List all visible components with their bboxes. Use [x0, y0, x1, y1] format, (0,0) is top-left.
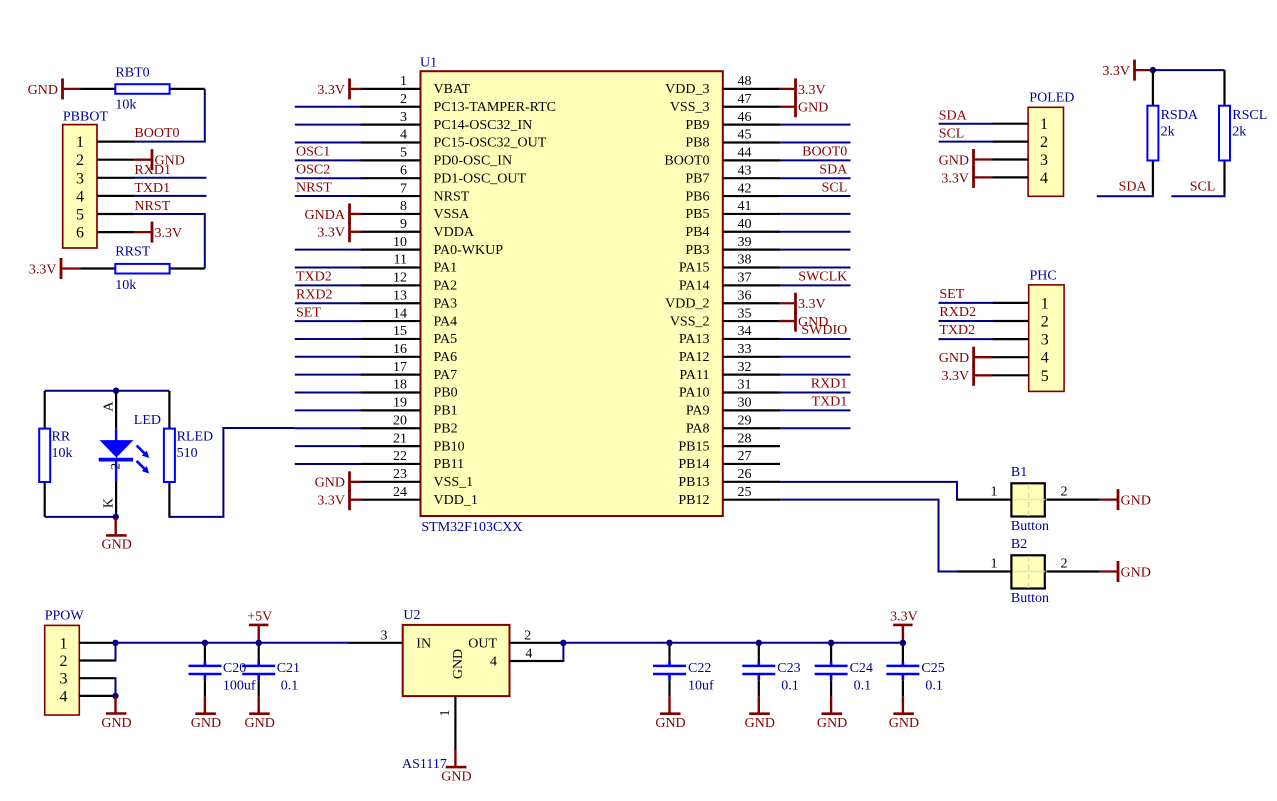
svg-text:5: 5 [76, 207, 84, 224]
svg-text:42: 42 [738, 181, 752, 196]
wire net RXD1 on U1 pin 31 [779, 392, 851, 394]
U1 pin 15 PA5 [361, 324, 458, 347]
wire PB12 pin25 to button B2 [779, 500, 959, 572]
U1 pin 30 PA9 [686, 396, 780, 419]
power port 3.3V on PHC pin 5 [941, 365, 992, 386]
wire on U1 pin 33 [779, 356, 851, 358]
svg-text:2: 2 [1041, 314, 1049, 331]
node junction C25 [900, 640, 906, 646]
U1 pin 17 PA7 [361, 360, 458, 383]
svg-text:AS1117: AS1117 [402, 757, 447, 772]
node junction LED cathode GND [113, 514, 119, 520]
U1 pin 6 PD1-OSC_OUT [361, 163, 527, 186]
U1 pin 16 PA6 [361, 342, 458, 365]
power port 3.3V on U1 pin 24 [317, 489, 361, 510]
svg-text:PB0: PB0 [434, 386, 458, 401]
svg-text:GND: GND [939, 351, 969, 366]
svg-text:PB15: PB15 [678, 439, 709, 454]
wire net SDA on U1 pin 43 [779, 177, 851, 179]
svg-text:SET: SET [296, 305, 321, 320]
svg-text:RSDA: RSDA [1161, 108, 1199, 123]
op-amp U1 STM32F103CXX microcontroller body [420, 56, 723, 536]
svg-text:3: 3 [1041, 332, 1049, 349]
svg-text:PB4: PB4 [685, 225, 709, 240]
svg-text:PB5: PB5 [685, 207, 709, 222]
U2 pin 1 GND [438, 696, 455, 749]
PPOW pin 2 [60, 653, 115, 670]
B2 pin 1 [957, 570, 1011, 572]
svg-text:30: 30 [738, 396, 752, 411]
wire on U1 pin 19 [295, 409, 362, 411]
power port GND at B1 [1100, 489, 1151, 510]
svg-text:PB11: PB11 [434, 457, 465, 472]
LED D1 light emitting diode [99, 391, 161, 517]
wire on U1 pin 10 [295, 249, 362, 251]
power port 3.3V on U1 pin 9 [317, 221, 361, 242]
svg-text:TXD2: TXD2 [939, 323, 975, 338]
svg-text:STM32F103CXX: STM32F103CXX [421, 520, 522, 535]
svg-text:10k: 10k [115, 278, 136, 293]
svg-text:4: 4 [1040, 170, 1048, 187]
svg-text:0.1: 0.1 [781, 679, 799, 694]
svg-text:24: 24 [393, 485, 407, 500]
svg-text:33: 33 [738, 342, 752, 357]
U1 pin 43 PB7 [685, 163, 780, 186]
wire LED top rail [45, 390, 170, 392]
B1 pin 2 [1047, 499, 1100, 501]
wire 3.3V rail U2 to C25 [563, 642, 903, 644]
svg-text:9: 9 [400, 217, 407, 232]
power port GNDA on U1 pin 8 [305, 203, 362, 224]
svg-text:100uf: 100uf [223, 679, 256, 694]
power port 3.3V on U1 pin 48 [779, 78, 826, 99]
connector POLED 4-pin header [1028, 90, 1074, 196]
svg-text:VSS_3: VSS_3 [670, 100, 710, 115]
svg-text:28: 28 [738, 431, 752, 446]
ground GND at U2 [441, 750, 471, 785]
svg-text:GND: GND [191, 716, 221, 731]
svg-text:VSS_2: VSS_2 [670, 314, 710, 329]
U1 pin 32 PA11 [679, 360, 780, 383]
svg-text:PA4: PA4 [434, 314, 458, 329]
svg-text:PA9: PA9 [686, 404, 710, 419]
U2 pin 2 OUT [510, 628, 563, 643]
wire PB13 pin26 to button B1 [779, 482, 959, 500]
svg-text:7: 7 [400, 181, 407, 196]
U1 pin 11 PA1 [361, 253, 458, 276]
ground GND at PPOW [101, 696, 131, 731]
svg-text:16: 16 [393, 342, 407, 357]
svg-text:NRST: NRST [434, 189, 470, 204]
svg-text:2k: 2k [1161, 124, 1175, 139]
svg-text:10uf: 10uf [688, 679, 714, 694]
svg-text:PA6: PA6 [434, 350, 458, 365]
U1 pin 38 PA15 [679, 253, 780, 276]
PPOW pin 4 [60, 688, 115, 705]
svg-text:39: 39 [738, 235, 752, 250]
POLED pin 4 [993, 170, 1049, 187]
U1 pin 9 VDDA [361, 217, 475, 240]
PBBOT pin 5 [76, 207, 134, 224]
svg-text:PB9: PB9 [685, 118, 709, 133]
svg-text:GND: GND [655, 716, 685, 731]
node junction U2 output [560, 640, 566, 646]
svg-text:4: 4 [1041, 350, 1049, 367]
U1 pin 7 NRST [361, 181, 470, 204]
power port GND on PBBOT pin 2 [134, 149, 184, 170]
power port 3.3V on POLED pin 4 [941, 167, 992, 188]
svg-text:PB14: PB14 [678, 457, 709, 472]
svg-text:SWDIO: SWDIO [801, 323, 847, 338]
svg-text:GND: GND [1121, 565, 1151, 580]
svg-text:OSC2: OSC2 [296, 162, 330, 177]
svg-text:GND: GND [102, 538, 132, 553]
ground GND at C22 [655, 696, 685, 731]
svg-text:3.3V: 3.3V [798, 297, 826, 312]
svg-text:3.3V: 3.3V [155, 226, 183, 241]
svg-text:GND: GND [798, 101, 828, 116]
svg-text:2: 2 [108, 463, 123, 470]
svg-text:35: 35 [738, 306, 752, 321]
svg-text:GND: GND [939, 153, 969, 168]
svg-text:15: 15 [393, 324, 407, 339]
U1 pin 4 PC15-OSC32_OUT [361, 128, 547, 151]
svg-text:20: 20 [393, 413, 407, 428]
U1 pin 20 PB2 [361, 413, 458, 436]
U1 pin 41 PB5 [685, 199, 780, 222]
wire net TXD1 on PBBOT pin 4 [133, 195, 206, 197]
svg-text:VSS_1: VSS_1 [434, 475, 474, 490]
svg-text:31: 31 [738, 378, 752, 393]
svg-text:0.1: 0.1 [925, 679, 943, 694]
U1 pin 37 PA14 [679, 271, 780, 294]
wire on U1 pin 2 [295, 106, 362, 108]
U1 pin 3 PC14-OSC32_IN [361, 110, 533, 133]
svg-text:PB2: PB2 [434, 421, 458, 436]
svg-text:3.3V: 3.3V [317, 83, 345, 98]
connector PPOW 4-pin header [45, 608, 85, 715]
wire on U1 pin 45 [779, 141, 851, 143]
svg-text:8: 8 [400, 199, 407, 214]
resistor RSDA 2k [1147, 70, 1198, 194]
wire net OSC1 on U1 pin 5 [295, 159, 362, 161]
svg-text:26: 26 [738, 467, 752, 482]
svg-text:18: 18 [393, 378, 407, 393]
svg-text:GND: GND [889, 716, 919, 731]
svg-text:21: 21 [393, 431, 407, 446]
wire on U1 pin 39 [779, 249, 851, 251]
wire on U1 pin 41 [779, 213, 851, 215]
wire net RXD2 on U1 pin 13 [295, 302, 362, 304]
svg-text:C23: C23 [777, 661, 800, 676]
svg-text:NRST: NRST [296, 180, 332, 195]
U1 pin 33 PA12 [679, 342, 780, 365]
svg-text:GND: GND [245, 716, 275, 731]
power port 3.3V on U1 pin 36 [779, 293, 826, 314]
ground GND at C24 [817, 696, 847, 731]
wire on U1 pin 40 [779, 231, 851, 233]
svg-text:PD0-OSC_IN: PD0-OSC_IN [434, 154, 513, 169]
svg-text:17: 17 [393, 360, 407, 375]
svg-text:PBBOT: PBBOT [63, 110, 109, 125]
svg-text:PA3: PA3 [434, 296, 458, 311]
node junction C24 [828, 640, 834, 646]
svg-text:PA11: PA11 [679, 368, 709, 383]
wire net TXD1 on U1 pin 30 [779, 409, 851, 411]
svg-text:0.1: 0.1 [854, 679, 872, 694]
U1 pin 44 BOOT0 [664, 146, 780, 169]
svg-text:4: 4 [76, 188, 84, 205]
U1 pin 14 PA4 [361, 306, 458, 329]
resistor RR 10k [39, 391, 72, 517]
svg-text:PA7: PA7 [434, 368, 458, 383]
wire net NRST on U1 pin 7 [295, 195, 362, 197]
PBBOT pin 6 [76, 225, 134, 242]
svg-text:11: 11 [394, 253, 407, 268]
svg-text:2: 2 [524, 628, 531, 643]
wire +5V rail PPOW to U2 [116, 642, 349, 644]
svg-text:4: 4 [60, 688, 68, 705]
U1 pin 22 PB11 [361, 449, 465, 472]
svg-text:BOOT0: BOOT0 [134, 126, 179, 141]
ground GND at C21 [245, 696, 275, 731]
svg-text:3.3V: 3.3V [317, 494, 345, 509]
svg-text:5: 5 [1041, 368, 1049, 385]
PHC pin 1 [993, 295, 1049, 312]
wire PPOW pin3 to pin4 node [115, 678, 116, 696]
svg-text:19: 19 [393, 396, 407, 411]
wire RLED to PB2 [169, 428, 294, 517]
svg-text:GND: GND [101, 716, 131, 731]
svg-text:B1: B1 [1011, 465, 1027, 480]
svg-text:Button: Button [1011, 519, 1049, 534]
svg-text:3: 3 [60, 671, 68, 688]
power port GND on POLED pin 3 [939, 149, 993, 170]
svg-text:1: 1 [438, 710, 453, 717]
svg-text:RXD1: RXD1 [134, 163, 171, 178]
svg-text:45: 45 [738, 128, 752, 143]
U1 pin 21 PB10 [361, 431, 465, 454]
svg-text:C24: C24 [850, 661, 873, 676]
svg-text:OSC1: OSC1 [296, 145, 330, 160]
svg-text:6: 6 [76, 225, 84, 242]
svg-text:PB8: PB8 [685, 136, 709, 151]
svg-text:PA13: PA13 [679, 332, 710, 347]
svg-text:PB7: PB7 [685, 171, 709, 186]
svg-text:1: 1 [76, 134, 84, 151]
svg-text:PHC: PHC [1030, 268, 1057, 283]
svg-text:48: 48 [738, 74, 752, 89]
U1 pin 1 VBAT [361, 74, 471, 97]
power port GND on U1 pin 35 [779, 311, 828, 332]
svg-text:PA15: PA15 [679, 261, 710, 276]
svg-text:U1: U1 [420, 56, 437, 71]
svg-text:3: 3 [381, 628, 388, 643]
wire net SCL on POLED pin 2 [939, 141, 994, 143]
svg-text:14: 14 [393, 306, 407, 321]
svg-text:GND: GND [745, 716, 775, 731]
svg-text:3.3V: 3.3V [317, 226, 345, 241]
U1 pin 10 PA0-WKUP [361, 235, 504, 258]
svg-text:GND: GND [315, 476, 345, 491]
POLED pin 2 [993, 134, 1049, 151]
svg-text:3: 3 [1040, 152, 1048, 169]
resistor RSCL 2k [1219, 70, 1267, 194]
svg-text:40: 40 [738, 217, 752, 232]
B2 pin 2 [1047, 570, 1100, 572]
svg-text:47: 47 [738, 92, 752, 107]
svg-text:2: 2 [1061, 557, 1068, 572]
svg-text:2: 2 [1061, 485, 1068, 500]
U1 pin 24 VDD_1 [361, 485, 478, 508]
svg-text:RRST: RRST [115, 244, 150, 259]
svg-text:PB13: PB13 [678, 475, 709, 490]
svg-text:PC13-TAMPER-RTC: PC13-TAMPER-RTC [434, 100, 557, 115]
svg-text:3: 3 [76, 170, 84, 187]
svg-text:SWCLK: SWCLK [798, 270, 847, 285]
svg-text:RLED: RLED [177, 430, 214, 445]
svg-text:2: 2 [60, 653, 68, 670]
wire LED bottom rail [45, 516, 116, 518]
wire net PB2 on U1 pin 20 [295, 427, 362, 429]
node junction C23 [756, 640, 762, 646]
svg-text:PA8: PA8 [686, 421, 710, 436]
svg-text:BOOT0: BOOT0 [802, 145, 847, 160]
svg-text:PC15-OSC32_OUT: PC15-OSC32_OUT [434, 136, 547, 151]
U1 pin 23 VSS_1 [361, 467, 474, 490]
U1 pin 18 PB0 [361, 378, 458, 401]
svg-text:PA12: PA12 [679, 350, 710, 365]
svg-text:VDD_3: VDD_3 [665, 82, 709, 97]
svg-text:25: 25 [738, 485, 752, 500]
svg-text:LED: LED [134, 413, 161, 428]
U1 pin 2 PC13-TAMPER-RTC [361, 92, 557, 115]
svg-text:GND: GND [817, 716, 847, 731]
svg-text:PB3: PB3 [685, 243, 709, 258]
power port GND on PHC pin 4 [939, 347, 993, 368]
svg-text:GND: GND [28, 83, 58, 98]
wire net SWCLK on U1 pin 37 [779, 284, 851, 286]
U1 pin 40 PB4 [685, 217, 780, 240]
power port GND on U1 pin 47 [779, 96, 828, 117]
svg-text:2k: 2k [1232, 124, 1246, 139]
svg-text:44: 44 [738, 146, 752, 161]
U1 pin 35 VSS_2 [670, 306, 780, 329]
svg-text:U2: U2 [403, 608, 420, 623]
svg-text:RXD1: RXD1 [811, 377, 848, 392]
svg-text:TXD1: TXD1 [134, 181, 170, 196]
connector PBBOT 6-pin header [63, 110, 109, 248]
ground GND at C23 [745, 696, 775, 731]
ground GND at C25 [889, 696, 919, 731]
U1 pin 25 PB12 [678, 485, 780, 508]
U1 pin 12 PA2 [361, 271, 458, 294]
svg-text:510: 510 [177, 446, 198, 461]
svg-text:3.3V: 3.3V [798, 83, 826, 98]
svg-text:1: 1 [1040, 116, 1048, 133]
svg-text:4: 4 [525, 647, 532, 662]
svg-text:SCL: SCL [1190, 180, 1216, 195]
svg-text:13: 13 [393, 288, 407, 303]
PHC pin 5 [993, 368, 1049, 385]
svg-text:PA1: PA1 [434, 261, 458, 276]
node junction PPOW pin4 [112, 693, 118, 699]
svg-text:B2: B2 [1011, 537, 1027, 552]
power port GND at B2 [1100, 561, 1151, 582]
U1 pin 28 PB15 [678, 431, 780, 454]
capacitor C20 100uf [189, 643, 256, 696]
wire net SDA on POLED pin 1 [939, 123, 994, 125]
svg-text:SCL: SCL [822, 180, 848, 195]
svg-text:PA14: PA14 [679, 279, 710, 294]
node junction 3.3V pullup [1150, 67, 1156, 73]
svg-text:A: A [102, 401, 117, 412]
svg-text:3.3V: 3.3V [29, 262, 57, 277]
svg-text:12: 12 [393, 271, 407, 286]
wire on U1 pin 21 [295, 445, 362, 447]
svg-text:1: 1 [991, 557, 998, 572]
svg-text:VDD_2: VDD_2 [665, 296, 709, 311]
U1 pin 5 PD0-OSC_IN [361, 146, 513, 169]
svg-text:10k: 10k [52, 446, 73, 461]
svg-text:SDA: SDA [1119, 180, 1148, 195]
svg-text:IN: IN [416, 636, 431, 651]
svg-text:2: 2 [400, 92, 407, 107]
svg-text:10: 10 [393, 235, 407, 250]
node junction C22 [666, 640, 672, 646]
svg-text:PPOW: PPOW [45, 608, 85, 623]
svg-text:POLED: POLED [1029, 90, 1074, 105]
U1 pin 29 PA8 [686, 413, 780, 436]
power port 3.3V at RRST [29, 258, 80, 279]
capacitor C25 0.1 [886, 643, 944, 696]
svg-text:1: 1 [60, 635, 68, 652]
svg-text:2: 2 [76, 152, 84, 169]
svg-text:PB6: PB6 [685, 189, 709, 204]
connector PHC 5-pin header [1029, 268, 1064, 391]
svg-text:VDDA: VDDA [434, 225, 475, 240]
U1 pin 47 VSS_3 [670, 92, 780, 115]
svg-text:0.1: 0.1 [281, 679, 299, 694]
svg-text:BOOT0: BOOT0 [664, 154, 709, 169]
svg-text:PA2: PA2 [434, 279, 458, 294]
svg-text:4: 4 [490, 655, 497, 670]
U1 pin 45 PB8 [685, 128, 780, 151]
U2 pin 4 OUT2 [510, 647, 563, 662]
B1 pin 1 [957, 499, 1011, 501]
svg-text:GNDA: GNDA [305, 208, 346, 223]
wire net TXD2 on PHC pin 3 [939, 338, 994, 340]
wire pullup top rail [1153, 69, 1225, 71]
svg-text:C21: C21 [277, 661, 300, 676]
svg-text:5: 5 [400, 146, 407, 161]
wire net SET on U1 pin 14 [295, 320, 362, 322]
PBBOT pin 4 [76, 188, 134, 205]
svg-text:OUT: OUT [468, 636, 497, 651]
U1 pin 48 VDD_3 [665, 74, 780, 97]
U1 pin 39 PB3 [685, 235, 780, 258]
svg-text:TXD2: TXD2 [296, 270, 332, 285]
resistor RBT0 10k [80, 65, 205, 112]
resistor RRST 10k [80, 244, 205, 293]
svg-text:3.3V: 3.3V [941, 369, 969, 384]
svg-text:2: 2 [1040, 134, 1048, 151]
wire on U1 pin 18 [295, 392, 362, 394]
svg-text:37: 37 [738, 271, 752, 286]
U1 pin 27 PB14 [678, 449, 780, 472]
wire on U1 pin 17 [295, 374, 362, 376]
svg-text:41: 41 [738, 199, 752, 214]
